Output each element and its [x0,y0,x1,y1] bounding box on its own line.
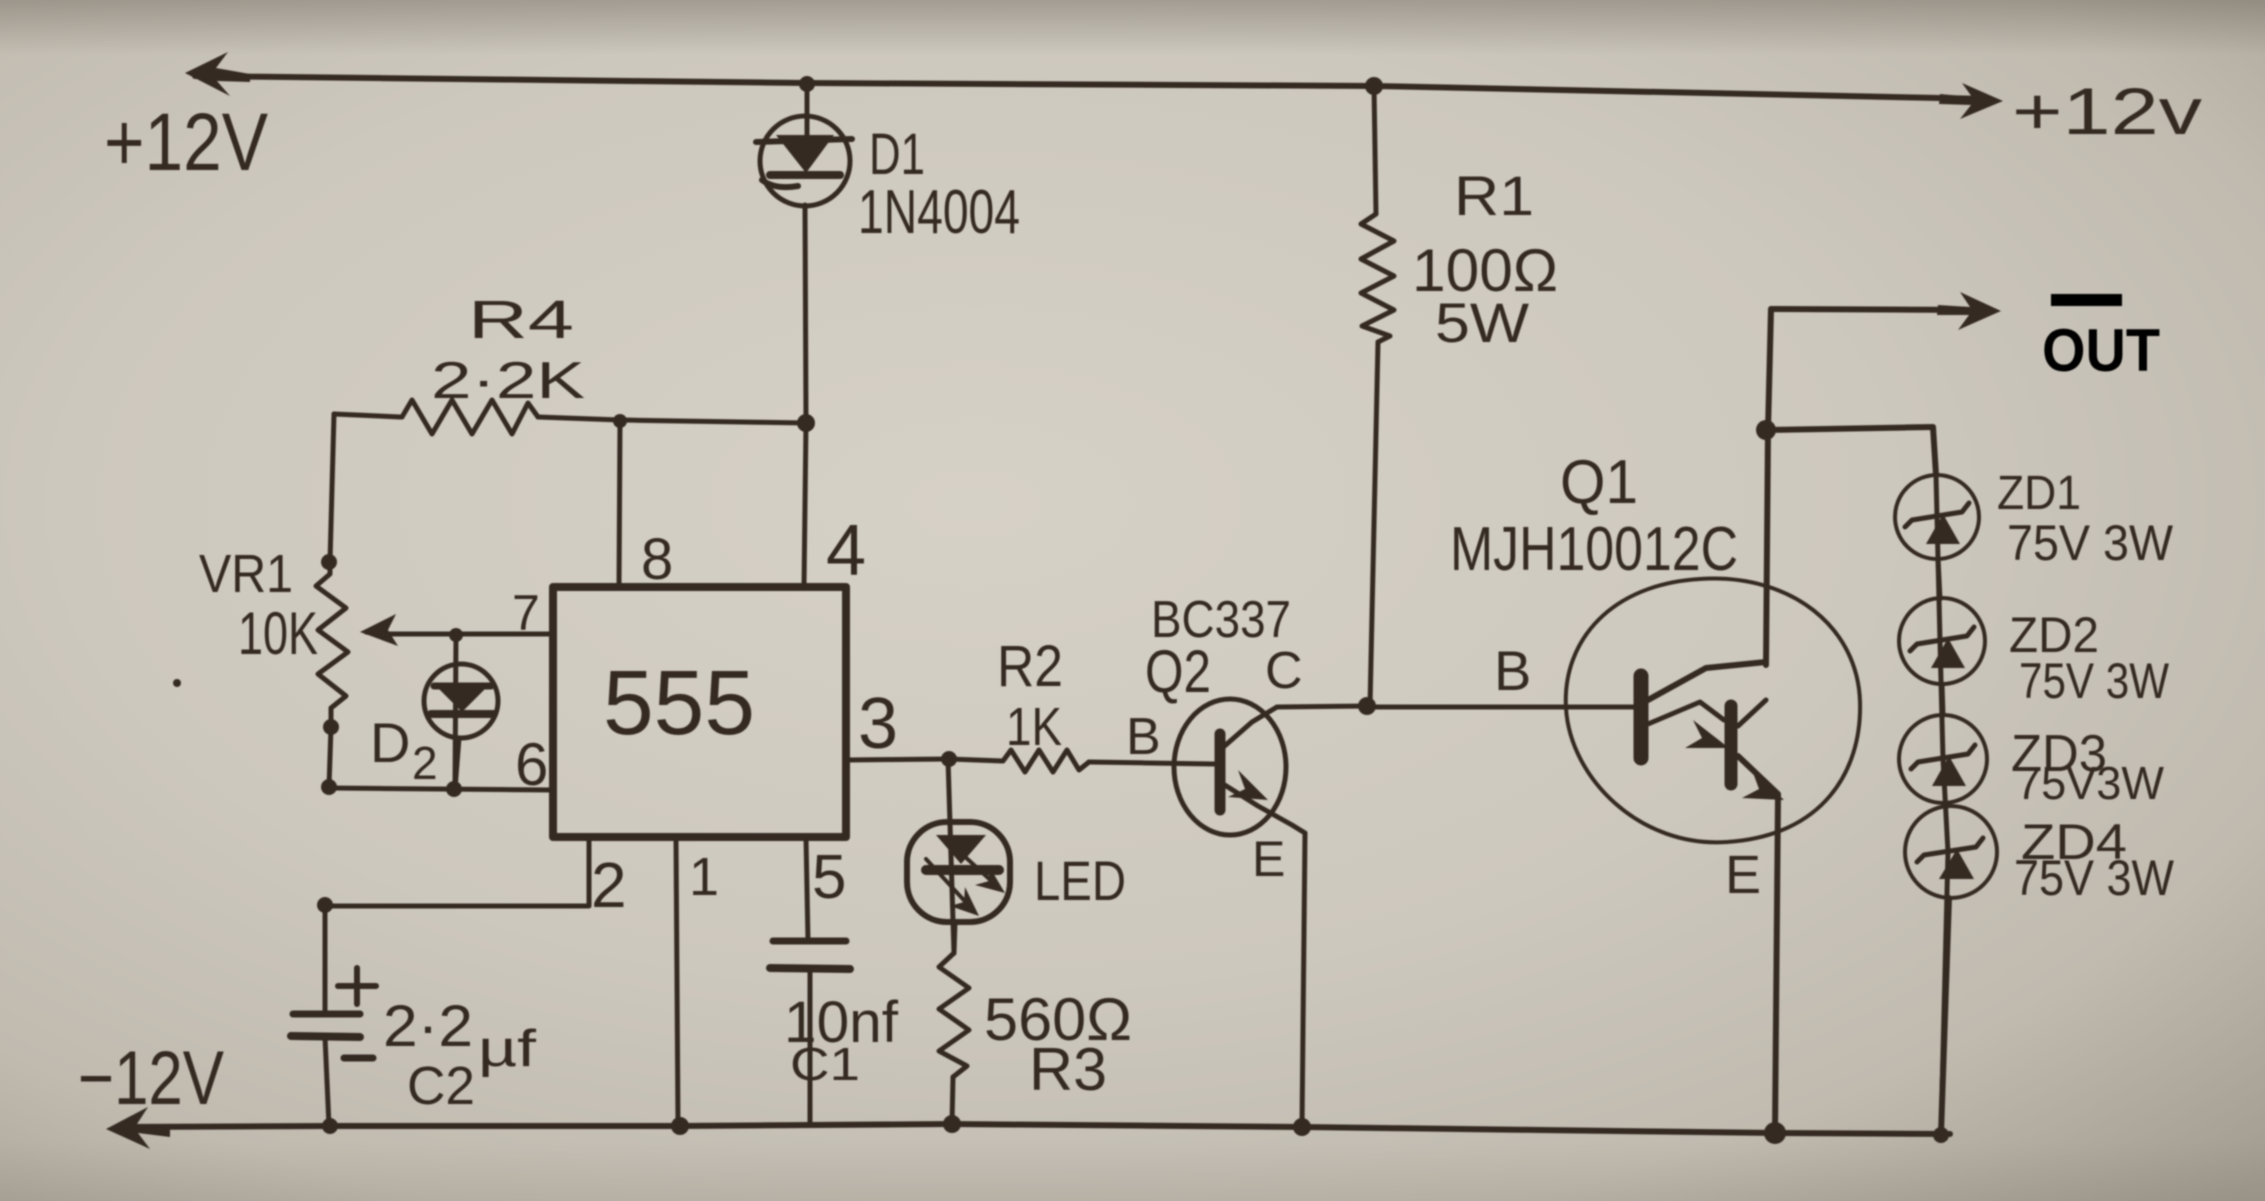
svg-text:B: B [1126,708,1161,766]
zener ZD4 [1905,806,1997,898]
svg-text:75V 3W: 75V 3W [2014,850,2175,906]
node VR1 top dot [321,554,337,570]
wire Q1 base [1367,705,1634,710]
svg-text:LED: LED [1034,849,1126,912]
node pin2 left [317,897,333,913]
wire bottom rail [120,1124,1950,1134]
zener ZD1 [1895,475,1979,559]
svg-text:75V 3W: 75V 3W [2007,515,2174,571]
node rail zener [1933,1127,1949,1143]
VR1 wiper arrow [366,632,384,634]
wire OUT vertical [1766,309,1771,665]
resistor R3 [939,953,969,1077]
svg-text:MJH10012C: MJH10012C [1450,515,1738,584]
wire LED drop [948,759,954,953]
wire Q2 emitter down [1302,833,1305,1127]
svg-text:C1: C1 [790,1038,860,1090]
wire pin 6 [329,788,552,790]
node pin8 tee [613,414,627,428]
node rail C2 [322,1118,338,1134]
wire D1 top [805,84,810,122]
svg-text:2: 2 [412,737,438,789]
svg-text:+12V: +12V [104,97,268,188]
node R1 top rail [1365,77,1383,95]
node rail Q1 emitter [1764,1122,1786,1144]
svg-text:75V 3W: 75V 3W [2019,653,2170,709]
svg-text:5W: 5W [1435,291,1529,354]
IC 555 box [553,587,846,837]
wire pin 1 [676,838,678,1124]
svg-text:8: 8 [641,527,673,592]
wire R3 to rail [952,1077,953,1124]
svg-text:+12v: +12v [2012,74,2202,148]
wire VR1 column to C2 [323,905,328,1013]
svg-text:E: E [1725,845,1761,905]
svg-text:2: 2 [591,849,627,921]
wire R1 top [1374,86,1376,214]
wire zener chain vertical [1936,475,1948,1134]
svg-text:3: 3 [858,684,898,764]
wire D2 top [455,635,456,789]
wire +12V top rail [195,76,1988,99]
svg-text:ZD1: ZD1 [1997,467,2081,520]
node pin6 left dot [321,779,337,795]
svg-text:555: 555 [603,652,755,754]
svg-text:C: C [1265,642,1303,700]
node rail Q2 emitter [1293,1118,1311,1136]
svg-text:2·2: 2·2 [383,994,473,1059]
wire Q2 collector to junction [1277,706,1367,707]
potentiometer VR1 [316,562,348,727]
node rail R3 [943,1115,961,1133]
transistor Q2 [1174,699,1305,835]
svg-text:1: 1 [689,847,719,907]
svg-text:Q2: Q2 [1145,638,1211,705]
wire R4 to pins 8/4 [538,417,806,423]
svg-text:6: 6 [515,731,548,798]
wire D1 bottom to R4 rail [805,205,806,422]
wire VR1 top [330,414,334,562]
resistor R4 [402,400,538,434]
wire D2 bottom [455,738,459,789]
transistor Q1 [1566,579,1860,843]
svg-text:µf: µf [478,1020,537,1078]
wire VR1 to pin6 junction [329,727,331,787]
wire ZD1-ZD2 [1938,559,1940,599]
node rail pin1 [671,1117,689,1135]
wire pin 4 [804,423,806,587]
svg-text:R1: R1 [1454,164,1534,227]
node VR1 bottom dot [323,719,339,735]
node D2 top [449,628,463,642]
resistor R1 [1361,214,1394,342]
svg-text:5: 5 [812,843,846,912]
OUT arrowhead [1937,292,2001,330]
wire pin 5 [806,838,808,941]
svg-text:B: B [1494,639,1531,702]
wire zener top [1766,427,1936,475]
svg-text:R4: R4 [468,290,574,350]
wire R2 to Q2 base [1089,762,1214,764]
svg-text:75V3W: 75V3W [2016,757,2165,809]
svg-text:R3: R3 [1029,1036,1107,1103]
svg-text:R2: R2 [997,634,1063,699]
ink speck [173,679,181,687]
svg-text:−12V: −12V [78,1036,224,1121]
wire ZD4 to rail [1941,898,1949,1134]
node Q1 base junction [1358,697,1376,715]
svg-text:E: E [1252,831,1285,887]
svg-text:1K: 1K [1006,697,1062,757]
capacitor C2 [291,968,376,1126]
top-right arrowhead [1939,83,2003,119]
diode D2 [424,664,498,738]
svg-text:10K: 10K [238,600,318,667]
LED [907,822,1010,922]
svg-text:OUT: OUT [2042,317,2160,384]
wire LED to R3 [954,922,955,953]
diode D1 [756,116,852,206]
wire pin 2 [325,838,589,906]
svg-text:VR1: VR1 [199,544,293,604]
svg-text:4: 4 [826,511,866,591]
node pin3 tee [941,751,957,767]
wire pin 8 [619,421,620,587]
svg-text:Q1: Q1 [1560,448,1638,517]
svg-text:D: D [370,711,410,774]
node junction D1-rail [799,76,815,92]
wire R1 bottom [1370,342,1378,706]
wire pin 3 [847,759,949,760]
resistor R2 [949,750,1089,772]
wire OUT horizontal [1771,309,1985,310]
wire pin 7 [384,632,552,637]
OUT overline [2051,294,2122,306]
svg-text:1N4004: 1N4004 [858,178,1020,247]
zener ZD3 [1899,715,1987,803]
svg-text:2·2K: 2·2K [431,352,585,410]
wire Q1 emitter down [1775,795,1778,1133]
node zener tee [1756,420,1776,440]
svg-text:C2: C2 [407,1056,475,1116]
wire R4 net horizontal [334,414,402,417]
capacitor C1 [770,941,850,1124]
zener ZD2 [1899,598,1985,684]
node D2 bottom [446,781,462,797]
bottom-left arrowhead [106,1107,170,1149]
node junction R4/D1 [797,414,815,432]
svg-text:7: 7 [512,585,540,641]
top-left arrowhead [185,52,250,96]
wire ZD2-ZD3 [1942,684,1943,715]
